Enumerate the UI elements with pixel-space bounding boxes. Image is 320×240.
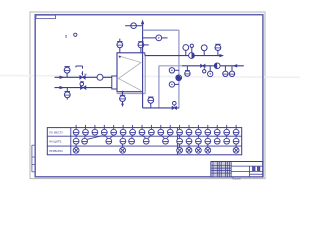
- title block outline: [211, 162, 263, 177]
- sensor TE1 above pipe1: [64, 67, 70, 73]
- sensor TE3 above HX left: [117, 42, 123, 48]
- table outer box: [47, 128, 241, 155]
- sensor dn2 dotted: [208, 71, 213, 76]
- title block left columns: [211, 162, 231, 177]
- heat exchanger header: [112, 76, 117, 89]
- sensor mid1: [169, 68, 174, 73]
- branch wire top: [125, 25, 143, 27]
- heat exchanger E1 shell: [117, 53, 143, 92]
- pipe 2 flow arrow: [60, 86, 65, 89]
- riser pipe: [142, 22, 144, 53]
- condensate valve actuator: [173, 101, 177, 105]
- sensor dn1 capped: [185, 71, 190, 76]
- return arrow left: [233, 64, 238, 67]
- table row2 panel instruments: [73, 138, 239, 144]
- coil weld dot: [119, 56, 121, 58]
- transmitter small: [190, 44, 193, 47]
- orifice FE1 inline: [97, 74, 103, 80]
- valve V1 actuator: [82, 71, 84, 75]
- svg-text:ПО МЕСТУ: ПО МЕСТУ: [49, 131, 63, 135]
- branch wire mid: [143, 37, 168, 39]
- condensate sensor capped: [148, 97, 154, 103]
- valve V2 actuator: [80, 82, 84, 86]
- control valve V2: [81, 86, 86, 90]
- heat exchanger coil zigzag: [119, 56, 142, 91]
- panel box right edge: [178, 30, 180, 108]
- title block left shading: [211, 162, 230, 176]
- svg-text:ПРИБОРЫ: ПРИБОРЫ: [49, 149, 63, 153]
- svg-text:НА ЩИТЕ: НА ЩИТЕ: [49, 140, 62, 144]
- table row divider 2: [47, 145, 241, 147]
- panel box 3 bottom: [117, 93, 146, 95]
- pipe 1 (hot inlet): [55, 76, 112, 78]
- panel box top edge: [143, 29, 179, 31]
- outlet arrow right: [219, 54, 224, 57]
- drain junction dot: [122, 91, 124, 93]
- condensate valve: [172, 106, 176, 109]
- sensor mid2: [169, 82, 174, 87]
- return line lower: [182, 65, 244, 67]
- left margin stamp cells: [32, 145, 35, 172]
- panel box 2 corner: [158, 66, 160, 108]
- sensor PI2 mid branch: [156, 35, 162, 41]
- svg-text:τ: τ: [65, 34, 67, 39]
- svg-text:Формат: Формат: [232, 177, 242, 181]
- drawing frame: [35, 15, 263, 177]
- drain arrow down: [121, 104, 124, 107]
- outlet line upper: [145, 55, 221, 57]
- drain sensor capped: [120, 96, 126, 102]
- sensor dn3: [223, 71, 228, 76]
- frame top-left doc cell: [36, 15, 56, 18]
- valve V3 positioner: [203, 70, 206, 73]
- panel box 3 vertical: [144, 56, 146, 94]
- sensor up2: [201, 45, 207, 51]
- table row divider 1: [47, 135, 241, 137]
- outlet jog: [143, 52, 145, 54]
- pump dark on line: [189, 53, 195, 59]
- pump dark mid: [176, 75, 182, 81]
- pipe 2 (cold inlet): [55, 87, 112, 89]
- sensor TE2 below pipe2: [64, 92, 70, 98]
- pump dark on return: [214, 63, 220, 69]
- fold artifact line: [0, 76, 300, 78]
- sensor up3 capped: [215, 45, 221, 51]
- table row1-row2 connections: [76, 135, 236, 139]
- table right section divider: [176, 128, 178, 155]
- return line lower light part: [159, 65, 182, 67]
- condensate pipe: [142, 92, 144, 108]
- paper sheet edge: [30, 12, 265, 179]
- sensor up1: [183, 45, 189, 51]
- title block right cells: [231, 166, 263, 177]
- control valve V1: [80, 76, 85, 80]
- sensor dn4: [229, 71, 234, 76]
- table row3 actuator symbols: [73, 144, 239, 153]
- table label divider: [70, 128, 72, 155]
- pipe 1 flow arrow: [60, 76, 65, 79]
- sensor TE4 above HX right: [138, 42, 144, 48]
- riser arrow up: [141, 20, 144, 25]
- table row1 local instruments: [73, 125, 239, 135]
- title block dark cell marks: [253, 167, 255, 171]
- sensor PI top branch: [131, 23, 137, 29]
- valve V3 on return: [201, 64, 205, 67]
- tiny mark O: [74, 33, 77, 36]
